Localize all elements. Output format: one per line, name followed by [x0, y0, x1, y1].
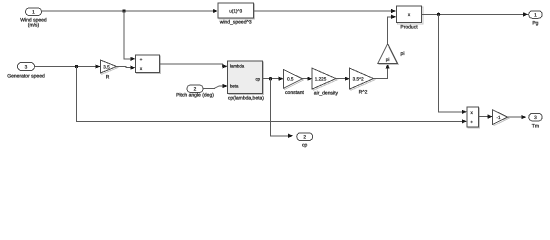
gain R (3.5) [101, 60, 118, 80]
wire: gain R output to Divide1 bottom input [117, 66, 136, 70]
wire: cp junction down to output port 2 (cp) [271, 79, 294, 138]
gain -1 [493, 110, 509, 126]
svg-text:Product: Product [400, 25, 418, 31]
svg-text:Pg: Pg [532, 20, 538, 26]
wire: gain constant to gain air_density [302, 77, 312, 81]
wire: product junction down to Divide2 top input [439, 14, 467, 114]
wire: Generator speed port to gain R [35, 64, 101, 68]
block Fcn u(1)^3 (wind_speed^3) [218, 3, 255, 26]
junction: product output branch node [437, 13, 440, 16]
wire: wind speed junction down to Divide1 top input [124, 11, 135, 61]
svg-text:3: 3 [25, 65, 28, 71]
svg-text:3: 3 [534, 115, 537, 121]
svg-text:wind_speed^3: wind_speed^3 [220, 20, 252, 26]
wire: Wind speed port to u(1)^3 block [42, 9, 218, 13]
gain constant (0.5) [284, 70, 305, 96]
svg-text:beta: beta [230, 84, 239, 89]
svg-text:pi: pi [401, 51, 405, 57]
block cp(lambda,beta) lookup subsystem [228, 61, 265, 102]
svg-text:3.5^2: 3.5^2 [353, 76, 365, 81]
output port 1 (Pg) [529, 11, 543, 26]
input port 1 (Wind speed) [20, 8, 47, 29]
svg-text:pi: pi [386, 57, 390, 62]
wire: Divide2 output to gain -1 [478, 115, 492, 119]
wire: gain air_density to gain R^2 [336, 77, 350, 81]
svg-text:cp: cp [302, 143, 308, 149]
gain pi (upward triangle) [378, 44, 405, 65]
svg-text:u(1)^3: u(1)^3 [229, 8, 242, 13]
svg-text:(m/s): (m/s) [28, 23, 40, 29]
svg-text:R^2: R^2 [359, 90, 368, 96]
svg-text:cp(lambda,beta): cp(lambda,beta) [228, 95, 264, 101]
svg-text:Pitch angle (deg): Pitch angle (deg) [176, 93, 214, 99]
output port 3 (Tm) [529, 113, 543, 129]
svg-text:constant: constant [285, 90, 305, 96]
svg-text:R: R [106, 74, 110, 80]
svg-text:Tm: Tm [532, 123, 539, 129]
svg-text:2: 2 [303, 135, 306, 141]
junction: generator speed branch node [75, 65, 78, 68]
svg-text:1: 1 [32, 10, 35, 16]
svg-text:lambda: lambda [230, 64, 245, 69]
gain air_density (1.225) [312, 68, 338, 97]
wire: Product output to output port 1 [422, 12, 529, 16]
wire: u(1)^3 output to Product input 1 [254, 9, 397, 13]
block Divide2 (Tm = P / w) [467, 107, 480, 128]
junction: cp branch node [269, 77, 272, 80]
svg-text:0.5: 0.5 [287, 77, 294, 82]
svg-text:cp: cp [255, 76, 260, 81]
svg-text:Generator speed: Generator speed [7, 74, 45, 80]
wire: Pitch angle port to cp block beta input [203, 84, 228, 89]
wire: cp output to gain constant [262, 77, 283, 81]
wire: gain -1 output to output port 3 (Tm) [508, 115, 527, 119]
wire: Divide1 output to cp block lambda input [160, 64, 228, 68]
svg-text:-1: -1 [496, 115, 501, 120]
gain R^2 (3.5^2) [350, 68, 375, 96]
svg-text:3.5: 3.5 [103, 64, 110, 69]
wire: generator junction down and across to Divide2 bottom input [77, 67, 467, 124]
svg-text:1: 1 [534, 13, 537, 19]
wire: gain pi output up to Product input 2 [388, 15, 397, 44]
block Product [396, 6, 423, 31]
input port 3 (Generator speed) [7, 63, 45, 80]
svg-text:1.225: 1.225 [315, 76, 327, 81]
input port 2 (Pitch angle (deg)) [176, 85, 214, 99]
wire: gain R^2 output up to gain pi [374, 64, 390, 79]
block Divide1 (lambda = w*R / v) [136, 55, 161, 74]
output port 2 (cp) [297, 133, 313, 149]
svg-text:air_density: air_density [314, 91, 339, 97]
junction: wind speed branch node [122, 9, 125, 12]
